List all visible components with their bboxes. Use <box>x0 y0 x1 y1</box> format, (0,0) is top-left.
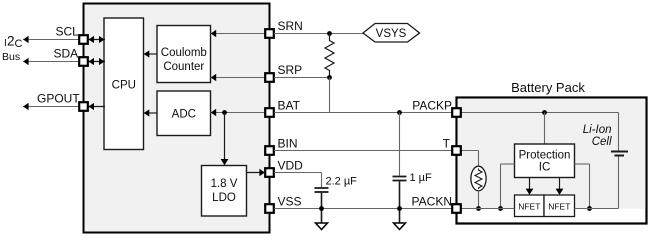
wire BAT to LDO input <box>221 113 229 166</box>
svg-text:PACKP: PACKP <box>412 99 452 113</box>
capacitor C1 2.2uF <box>315 173 358 224</box>
svg-text:NFET: NFET <box>518 202 540 212</box>
node SRN resistor junction <box>327 31 332 36</box>
wire VSS net to PACKN <box>274 208 452 210</box>
svg-text:Bus: Bus <box>2 51 20 63</box>
resistor sense Rsense <box>325 34 334 78</box>
wire PACKN rail right <box>575 208 619 210</box>
wire gate drive Q1 <box>526 178 534 195</box>
node thermistor PACKN junction <box>476 206 481 211</box>
wire BAT internal to ADC <box>211 109 266 117</box>
wire T to thermistor <box>461 151 479 167</box>
svg-text:BIN: BIN <box>278 137 298 151</box>
pin VDD <box>265 159 303 177</box>
battery cell B1 Li-Ion <box>611 152 628 209</box>
battery pack shaded area <box>458 99 646 209</box>
svg-text:T: T <box>443 137 451 151</box>
Coulomb Counter block <box>157 26 211 83</box>
svg-text:BAT: BAT <box>278 99 301 113</box>
pin BIN <box>265 137 297 155</box>
svg-text:SRN: SRN <box>278 19 303 33</box>
pin PACKN <box>412 195 461 213</box>
wire SRN net <box>274 33 363 35</box>
wire SRP internal to Coulomb Counter <box>211 74 266 82</box>
pin PACKP <box>412 99 461 117</box>
wire SCL internal bidirectional <box>88 36 105 43</box>
svg-text:PACKN: PACKN <box>412 195 452 209</box>
capacitor C2 1uF <box>393 113 433 224</box>
svg-text:2.2 µF: 2.2 µF <box>326 176 358 188</box>
svg-text:Counter: Counter <box>163 61 204 73</box>
node PACKP protection junction <box>542 110 547 115</box>
svg-text:GPOUT: GPOUT <box>37 92 80 106</box>
1.8 V LDO block <box>202 166 247 217</box>
ground below C1 <box>316 223 328 230</box>
wire ADC to CPU <box>144 109 157 116</box>
wire GPOUT internal <box>88 103 105 110</box>
wire cell positive drop <box>618 113 620 151</box>
wire protection IC supply <box>544 113 546 145</box>
wire PACKN rail left <box>461 208 515 210</box>
pin BAT <box>265 99 300 117</box>
thermistor RT1 <box>471 166 486 191</box>
svg-text:VSYS: VSYS <box>376 28 407 40</box>
node C1 VSS junction <box>319 206 324 211</box>
svg-text:SRP: SRP <box>278 63 303 77</box>
wire gate drive Q2 <box>556 178 564 195</box>
wire SCL external <box>23 36 79 44</box>
svg-text:SCL: SCL <box>56 25 80 39</box>
wire protection IC right sense <box>575 164 590 209</box>
flag VSYS <box>363 24 420 43</box>
wire thermistor to PACKN rail <box>478 191 480 209</box>
svg-text:1.8 V: 1.8 V <box>211 178 238 190</box>
svg-text:VSS: VSS <box>278 195 302 209</box>
node left sense PACKN junction <box>498 206 503 211</box>
wire BAT net to PACKP <box>274 112 452 114</box>
pin GPOUT <box>37 92 88 111</box>
wire SRN internal to Coulomb Counter <box>211 30 266 38</box>
Li-Ion Cell label <box>583 124 612 148</box>
svg-text:Battery Pack: Battery Pack <box>511 80 585 95</box>
node BAT 1uF junction <box>397 110 402 115</box>
svg-text:NFET: NFET <box>548 202 570 212</box>
svg-text:IC: IC <box>539 162 551 174</box>
svg-text:Protection: Protection <box>519 150 571 162</box>
ADC block <box>157 91 211 136</box>
wire PACKP rail <box>461 112 619 114</box>
pin SRN <box>265 19 303 38</box>
wire SRP to BAT tie <box>329 78 331 113</box>
wire VDD net <box>274 172 322 174</box>
pin T <box>443 137 461 155</box>
pin VSS <box>265 195 301 213</box>
svg-text:1 µF: 1 µF <box>410 172 433 184</box>
node SRP resistor junction <box>327 75 332 80</box>
transistor Q2 NFET <box>544 195 575 217</box>
svg-text:VDD: VDD <box>278 159 304 173</box>
svg-text:Coulomb: Coulomb <box>161 47 207 59</box>
node C2 VSS junction <box>397 206 402 211</box>
wire SDA external <box>23 58 79 66</box>
svg-text:ADC: ADC <box>172 109 196 121</box>
CPU block <box>104 18 144 150</box>
transistor Q1 NFET <box>515 195 545 217</box>
svg-text:SDA: SDA <box>54 47 79 61</box>
fuel gauge IC body U1 <box>84 4 270 233</box>
pin SDA <box>54 47 88 66</box>
svg-text:2: 2 <box>7 34 15 49</box>
wire protection IC left sense <box>501 164 515 209</box>
node right sense PACKN junction <box>587 206 592 211</box>
svg-text:C: C <box>15 38 23 50</box>
battery pack body <box>457 98 647 224</box>
wire Coulomb Counter to CPU <box>144 50 157 57</box>
svg-text:Cell: Cell <box>592 136 612 148</box>
ground below C2 <box>394 223 406 230</box>
I2C Bus label <box>2 34 23 64</box>
wire LDO output to VDD pin <box>247 169 265 177</box>
wire SDA internal bidirectional <box>88 58 105 65</box>
protection IC U2 <box>515 144 575 178</box>
wire BIN net to T <box>274 150 452 152</box>
wire GPOUT external <box>23 103 79 111</box>
pin SRP <box>265 63 302 82</box>
svg-text:LDO: LDO <box>212 192 236 204</box>
svg-text:Li-Ion: Li-Ion <box>583 124 612 136</box>
wire SRP net <box>274 77 330 79</box>
node BAT internal junction <box>222 110 227 115</box>
pin SCL <box>56 25 88 44</box>
svg-text:CPU: CPU <box>112 80 136 92</box>
